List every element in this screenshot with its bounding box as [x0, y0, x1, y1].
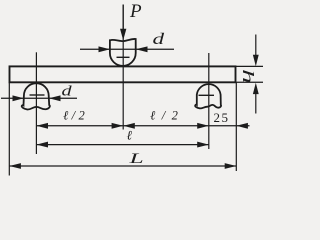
svg-text:25: 25 [214, 110, 230, 125]
svg-text:ℓ/2: ℓ/2 [150, 109, 184, 123]
svg-text:d: d [153, 30, 165, 48]
svg-text:d: d [62, 82, 72, 99]
svg-text:P: P [129, 1, 142, 22]
svg-text:ℓ: ℓ [127, 128, 133, 143]
svg-text:h: h [239, 69, 256, 84]
svg-text:ℓ/2: ℓ/2 [63, 109, 88, 123]
svg-text:L: L [128, 149, 143, 166]
